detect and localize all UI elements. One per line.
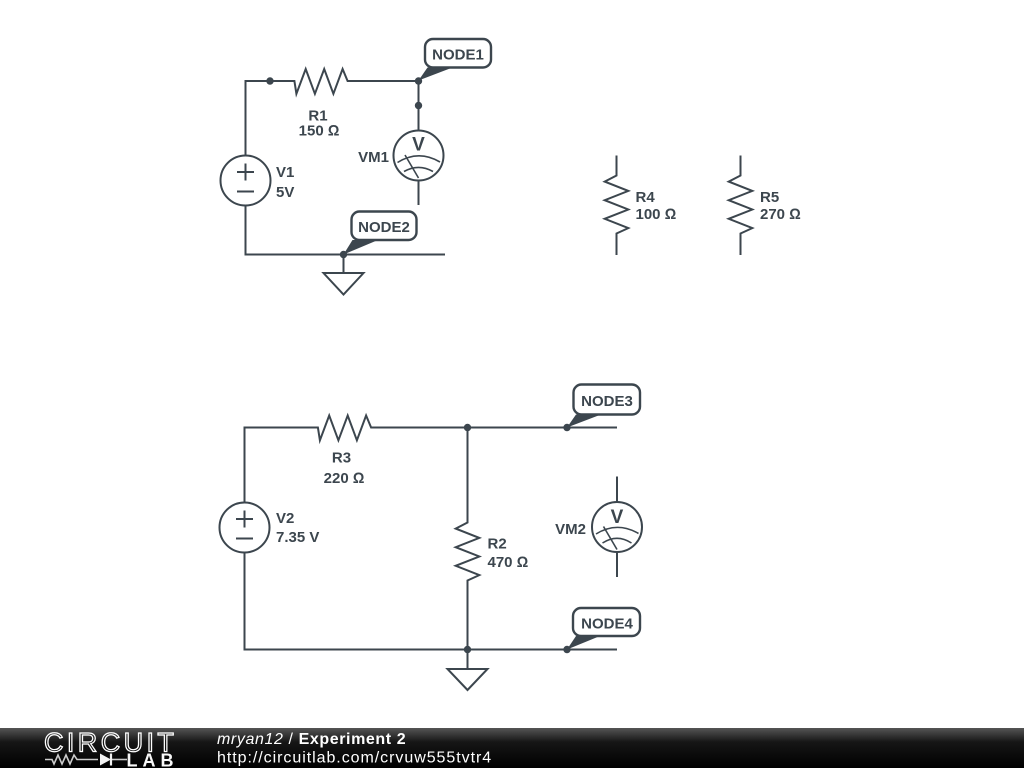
svg-text:270 Ω: 270 Ω [760, 206, 801, 223]
svg-text:220 Ω: 220 Ω [324, 470, 365, 487]
svg-text:VM1: VM1 [358, 149, 389, 166]
svg-text:R4: R4 [636, 189, 656, 206]
svg-text:LAB: LAB [127, 751, 179, 768]
svg-text:V: V [611, 507, 624, 528]
svg-text:V2: V2 [276, 510, 294, 527]
svg-text:mryan12 / Experiment 2: mryan12 / Experiment 2 [217, 731, 406, 748]
svg-text:7.35 V: 7.35 V [276, 529, 319, 546]
svg-text:R3: R3 [332, 450, 351, 467]
svg-text:http://circuitlab.com/crvuw555: http://circuitlab.com/crvuw555tvtr4 [217, 750, 492, 767]
svg-text:NODE2: NODE2 [358, 219, 410, 236]
svg-text:100 Ω: 100 Ω [636, 206, 677, 223]
svg-text:R5: R5 [760, 189, 779, 206]
svg-text:V: V [412, 135, 425, 156]
svg-text:VM2: VM2 [555, 521, 586, 538]
svg-text:NODE3: NODE3 [581, 393, 633, 410]
svg-text:5V: 5V [276, 184, 294, 201]
svg-text:R2: R2 [488, 536, 507, 553]
svg-text:NODE4: NODE4 [581, 616, 633, 633]
svg-text:NODE1: NODE1 [432, 47, 484, 64]
svg-text:V1: V1 [276, 164, 294, 181]
svg-text:470 Ω: 470 Ω [488, 554, 529, 571]
svg-text:150 Ω: 150 Ω [299, 123, 340, 140]
